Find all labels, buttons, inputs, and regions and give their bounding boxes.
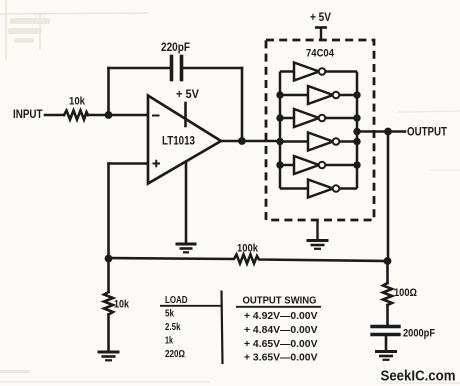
- svg-text:10k: 10k: [69, 96, 86, 108]
- svg-text:220pF: 220pF: [161, 42, 190, 54]
- svg-text:1k: 1k: [165, 335, 173, 347]
- svg-text:INPUT: INPUT: [13, 109, 43, 121]
- svg-text:+ 4.65V—0.00V: + 4.65V—0.00V: [244, 338, 318, 350]
- svg-text:OUTPUT SWING: OUTPUT SWING: [243, 294, 317, 306]
- svg-text:+ 5V: + 5V: [310, 12, 331, 24]
- svg-text:5k: 5k: [165, 308, 174, 320]
- svg-text:74C04: 74C04: [306, 48, 335, 60]
- svg-text:100Ω: 100Ω: [394, 287, 417, 299]
- svg-text:2000pF: 2000pF: [403, 328, 435, 340]
- svg-text:100k: 100k: [237, 243, 259, 255]
- svg-text:+ 4.84V—0.00V: + 4.84V—0.00V: [244, 324, 318, 336]
- svg-text:2.5k: 2.5k: [165, 321, 181, 333]
- svg-text:+ 5V: + 5V: [176, 89, 199, 101]
- svg-text:10k: 10k: [114, 299, 130, 311]
- svg-text:+ 4.92V—0.00V: + 4.92V—0.00V: [244, 310, 318, 322]
- svg-text:OUTPUT: OUTPUT: [407, 127, 447, 139]
- svg-text:220Ω: 220Ω: [165, 348, 185, 360]
- svg-text:+ 3.65V—0.00V: + 3.65V—0.00V: [244, 352, 318, 364]
- svg-text:SeekIC.com: SeekIC.com: [381, 369, 456, 385]
- svg-text:LOAD: LOAD: [165, 294, 188, 306]
- svg-text:LT1013: LT1013: [162, 136, 195, 148]
